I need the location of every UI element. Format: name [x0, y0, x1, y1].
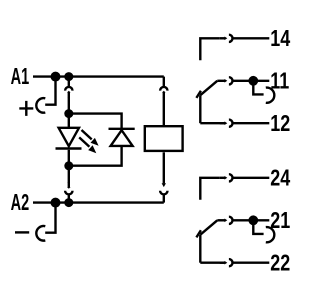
plug-in contact pin on line 11 — [217, 80, 220, 82]
wire lever pivot to line 22 — [199, 235, 201, 263]
wire to - test socket — [45, 203, 55, 233]
free-wheeling diode cathode bar — [109, 128, 135, 130]
test socket hook at 11 — [253, 85, 263, 95]
plug-in contact pin on line 21 — [217, 219, 220, 221]
svg-text:21: 21 — [270, 208, 290, 234]
plug-in contact pin on line 14 — [220, 37, 225, 39]
plug-in connection coil top: socket — [160, 87, 167, 91]
svg-text:A2: A2 — [11, 191, 30, 216]
wire to terminal 24 — [233, 177, 270, 179]
actuator tick on lever — [196, 91, 201, 98]
plug-in contact pin on line 22 — [200, 262, 224, 264]
wire to + test socket — [45, 77, 55, 105]
svg-text:24: 24 — [270, 166, 290, 192]
junction node on line 21 — [248, 215, 258, 225]
plug-in socket on line 21 — [229, 217, 233, 224]
wire to terminal 22 — [233, 262, 270, 264]
plug-in contact pin on line 24 — [220, 177, 225, 179]
svg-text:A1: A1 — [11, 65, 30, 90]
+ test socket arc — [36, 98, 45, 113]
plug-in connection A1 branch: pin — [68, 92, 70, 97]
wire inner top rail — [69, 114, 122, 129]
wire A2 rail — [33, 201, 164, 203]
wire dot3 to LED — [68, 114, 70, 128]
relay coil K1 — [145, 126, 183, 151]
LED cathode bar — [56, 147, 82, 149]
svg-text:12: 12 — [270, 111, 290, 137]
wire LED to bottom node — [68, 150, 70, 166]
movable contact lever (common 11) — [200, 81, 217, 95]
node on A1 rail left — [51, 72, 61, 82]
plug-in contact pin on line 12 — [200, 122, 224, 124]
plug-in connection A2 branch: pin — [68, 170, 70, 184]
wire to terminal 21 — [233, 219, 270, 221]
plug-in connection coil top: pin — [163, 92, 165, 97]
svg-text:22: 22 — [270, 251, 290, 277]
LED emission arrow 2 — [79, 137, 89, 146]
plug-in socket on line 11 — [229, 77, 233, 84]
LED emission arrow 1 — [82, 130, 92, 139]
polarity minus sign — [15, 231, 29, 233]
plug-in connection A2 branch: socket — [65, 191, 72, 195]
node inner top — [64, 109, 73, 118]
plug-in socket on line 12 — [229, 120, 233, 127]
plug-in connection coil bottom: socket — [160, 191, 167, 195]
node on A2 rail right — [64, 198, 73, 207]
plug-in socket on line 24 — [229, 174, 233, 181]
node inner bottom — [64, 161, 73, 170]
plug-in socket on line 14 — [229, 35, 233, 42]
wire to terminal 11 — [233, 80, 270, 82]
LED triangle — [59, 128, 79, 146]
junction node on line 11 — [248, 76, 258, 86]
polarity plus sign — [19, 101, 33, 116]
wire A1 rail corner down to coil — [163, 77, 165, 88]
actuator tick on lever — [196, 230, 201, 237]
node on A2 rail left — [51, 198, 61, 208]
wire to terminal 12 — [233, 122, 270, 124]
svg-text:11: 11 — [270, 69, 289, 95]
wire lever pivot to line 12 — [199, 95, 201, 123]
node on A1 rail right — [64, 72, 73, 81]
test socket hook at 21 — [253, 224, 263, 234]
wire A1 rail — [33, 75, 164, 77]
wire inner bottom rail — [69, 146, 122, 166]
plug-in socket on line 22 — [229, 259, 233, 266]
plug-in connection A1 branch: socket — [68, 80, 70, 87]
contact 24 NO fixed contact stub — [200, 178, 220, 200]
movable contact lever (common 21) — [200, 220, 217, 234]
contact 14 NO fixed contact stub — [200, 38, 220, 60]
free-wheeling diode triangle — [111, 130, 133, 146]
- test socket arc — [36, 226, 45, 241]
wire coil bottom — [163, 152, 165, 183]
svg-text:14: 14 — [270, 26, 290, 52]
wire to terminal 14 — [233, 37, 270, 39]
plug-in connection coil bottom: pin — [162, 183, 166, 187]
